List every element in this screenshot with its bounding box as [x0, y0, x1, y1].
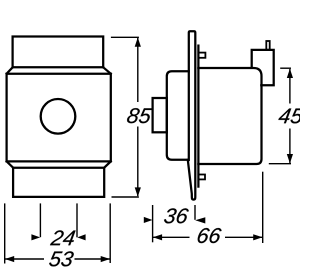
- dim 85 extension line bottom: [112, 196, 139, 198]
- dim 66 arrowhead right (points right): [253, 234, 262, 240]
- side view knob protrusion: [153, 98, 167, 132]
- dim 53 dimension line: [5, 258, 111, 260]
- side view upper claw tab: [198, 53, 205, 58]
- front view cap-body chamfer left: [7, 67, 13, 73]
- dim 85 arrowhead down: [135, 187, 141, 196]
- side view terminal pin: [266, 41, 269, 50]
- dim text 53: [49, 251, 75, 266]
- dim text 66: [197, 228, 222, 243]
- dim text 85: [126, 108, 152, 123]
- dim 66 dimension line: [153, 236, 263, 238]
- side view terminal box: [252, 50, 274, 85]
- side view cap (front part): [167, 71, 189, 160]
- dim text 45: [278, 109, 304, 124]
- dim text 24: [50, 230, 76, 245]
- front view cap outline: [13, 37, 104, 68]
- front view knob circle: [41, 99, 76, 134]
- dim 45 dimension line: [289, 69, 291, 163]
- dim 36 witness line left shared with 66: [152, 205, 154, 242]
- dim 24 witness line left: [39, 203, 41, 237]
- dim text 36: [163, 208, 189, 223]
- dim 45 extension line top: [280, 67, 291, 69]
- dim 36 arrowhead left (points right): [144, 217, 153, 223]
- front view body outline: [7, 74, 111, 162]
- front view cap-body chamfer right: [103, 67, 111, 73]
- dim 85 dimension line: [137, 38, 139, 196]
- front view cap bottom edge: [13, 66, 104, 68]
- dim 66 witness line right: [262, 172, 264, 243]
- dim 24 arrowhead right (points left, tilted): [77, 234, 85, 240]
- dim 36 witness line right: [194, 205, 196, 220]
- side view lower claw tab: [198, 175, 205, 180]
- dim 45 arrowhead down: [287, 154, 293, 163]
- front view base outline: [13, 168, 104, 197]
- side view mounting plate with claw: [188, 31, 196, 199]
- dim 45 arrowhead up: [287, 69, 293, 78]
- side view claw hook line above body: [197, 46, 199, 68]
- dim 24 witness line right: [76, 203, 78, 237]
- dim 66 arrowhead left (points left): [153, 234, 162, 240]
- dim 85 extension line top: [111, 36, 139, 38]
- dim 36 arrowhead right (points left, tilted): [195, 217, 205, 223]
- dim 85 arrowhead up: [135, 37, 141, 46]
- side view main body box: [198, 68, 261, 164]
- dim 24 arrowhead left (points right): [31, 234, 40, 240]
- dim 53 witness line left: [4, 203, 6, 263]
- front view body-base chamfer left: [7, 161, 14, 167]
- dim 53 arrowhead right (points right): [101, 256, 110, 262]
- side view claw hook line below body: [197, 164, 199, 187]
- dim 45 extension line bottom: [269, 163, 291, 165]
- dim 53 arrowhead left (points left): [5, 256, 14, 262]
- dim 53 witness line right: [109, 203, 111, 263]
- front view body-base chamfer right: [104, 161, 111, 167]
